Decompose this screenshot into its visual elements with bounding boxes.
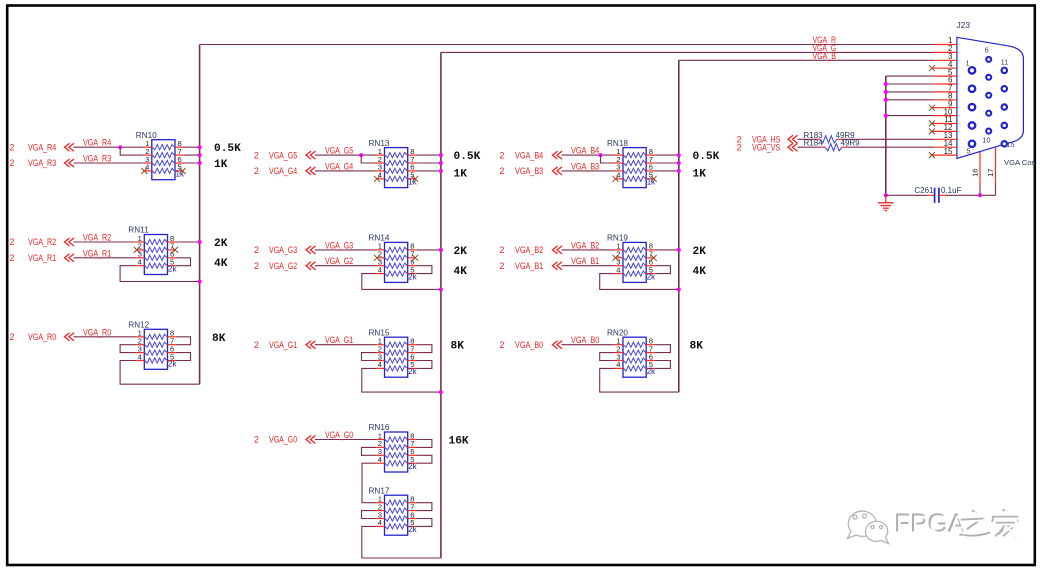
wire ground bus to J23 pin 5	[886, 75, 934, 77]
wire VGA_R4 to RN10 pin 1	[74, 146, 144, 148]
svg-text:2: 2	[500, 245, 505, 255]
wire ground bus to J23 pin 8	[886, 99, 934, 101]
junction G bus RN14 loop	[439, 287, 443, 291]
pin stub J23 pin 9	[932, 107, 957, 109]
off-page port VGA_R4	[10, 142, 75, 152]
wire VGA_VS to R184	[798, 146, 822, 148]
no-connect J23 pin 15	[929, 152, 935, 158]
wire VGA_B top horizontal to J23 pin3	[679, 59, 934, 61]
resistor network RN15	[369, 328, 418, 377]
off-page port VGA_R2	[10, 237, 75, 247]
no-connect RN13 pin 4	[374, 176, 380, 182]
junction B bus RN18 pin6	[677, 169, 681, 173]
net bus VGA_R vertical	[199, 45, 201, 385]
wire loop RN17 pin 4 to G bus end	[362, 526, 441, 558]
off-page port VGA_G5	[254, 150, 316, 160]
svg-text:1K: 1K	[454, 168, 468, 180]
off-page port VGA_G3	[254, 245, 316, 255]
off-page port VGA_G0	[254, 435, 316, 445]
svg-text:VGA_G4: VGA_G4	[269, 166, 297, 176]
net bus VGA_G vertical	[440, 52, 442, 558]
svg-text:15: 15	[944, 147, 953, 156]
no-connect J23 pin 9	[929, 105, 935, 111]
wire VGA_B0 to RN20 pin 1	[562, 344, 615, 346]
resistor R184 49R9	[804, 139, 861, 151]
pin stub J23 pin 10	[934, 115, 957, 117]
off-page port VGA_R1	[10, 253, 75, 263]
svg-text:VGA_G4: VGA_G4	[325, 161, 353, 171]
wire loop RN11 pin 4 to R bus	[120, 266, 200, 282]
wire VGA_G3 to RN14 pin 1	[315, 249, 376, 251]
ground net vertical bus	[885, 76, 887, 195]
wire RN18 pin 6 to B bus	[655, 170, 679, 172]
resistor network RN13	[369, 139, 418, 188]
junction R bus pin6	[198, 161, 202, 165]
pin stub J23 pin 2	[934, 51, 957, 53]
watermark FPGA logo	[848, 511, 889, 543]
resistor R183 49R9	[804, 131, 856, 143]
wire VGA_B2 to RN19 pin 1	[562, 249, 615, 251]
svg-text:0.5K: 0.5K	[214, 143, 241, 155]
svg-text:2: 2	[737, 142, 742, 152]
pin stub J23 pin 11	[932, 123, 957, 125]
wire bracket RN17 pin 6 to pin 5	[416, 519, 432, 527]
svg-text:0.1uF: 0.1uF	[941, 186, 962, 195]
svg-text:VGA_B3: VGA_B3	[571, 161, 599, 171]
no-connect RN10 pin 5	[180, 168, 186, 174]
svg-text:4K: 4K	[693, 266, 707, 278]
wire loop RN15 pin 4 to G bus	[362, 368, 441, 392]
junction R bus RN11 loop	[198, 280, 202, 284]
wire VGA_R0 to RN12 pin 1	[74, 336, 136, 338]
svg-text:2: 2	[500, 150, 505, 160]
svg-text:RN19: RN19	[607, 234, 628, 243]
wire bracket RN20 pin 8 to pin 7	[655, 345, 671, 353]
capacitor C261 0.1uF	[914, 186, 961, 203]
connector J23 outline	[957, 37, 1024, 158]
wire VGA_HS to R183	[798, 138, 817, 140]
svg-text:VGA_B0: VGA_B0	[515, 340, 543, 350]
wire J23 pin 17 drop	[995, 185, 997, 195]
junction B bus RN19 pin8	[677, 248, 681, 252]
svg-text:4: 4	[616, 360, 620, 369]
resistor network RN17	[369, 486, 418, 535]
svg-text:VGA_G2: VGA_G2	[325, 256, 353, 266]
svg-text:4: 4	[378, 171, 382, 180]
svg-text:VGA_G1: VGA_G1	[325, 335, 353, 345]
wire ground bus to J23 pin 7	[886, 91, 934, 93]
junction B bus RN19 loop	[677, 287, 681, 291]
wire R183 to J23 pin 13	[841, 138, 934, 140]
junction R bus RN11 pin8	[198, 240, 202, 244]
no-connect J23 pin 12	[929, 128, 935, 134]
junction ground bus pin8	[884, 98, 888, 102]
junction R bus pin7	[198, 153, 202, 157]
wire RN19 pin 8 to B bus	[655, 249, 679, 251]
junction ground bus pin6	[884, 82, 888, 86]
svg-text:RN20: RN20	[607, 328, 628, 337]
svg-text:VGA Con: VGA Con	[1004, 158, 1036, 167]
svg-text:VGA_G2: VGA_G2	[269, 261, 297, 271]
svg-text:4K: 4K	[454, 266, 468, 278]
wire bracket RN20 pin 6 to pin 5	[655, 361, 671, 369]
svg-text:4: 4	[138, 258, 142, 267]
junction ground at C261	[884, 193, 888, 197]
wire bracket RN14 pin 6 to pin 5	[416, 266, 432, 274]
wire RN10 pin 7 to R bus	[184, 154, 200, 156]
wire RN18 pin 7 to B bus	[655, 162, 679, 164]
pin stub J23 pin 15	[932, 154, 957, 156]
svg-text:VGA_R3: VGA_R3	[28, 158, 56, 168]
wire VGA_G2 to RN14 pin 3	[315, 265, 376, 267]
svg-text:2: 2	[254, 150, 259, 160]
svg-text:2k: 2k	[408, 525, 417, 534]
wire VGA_G1 to RN15 pin 1	[315, 344, 376, 346]
wire VGA_G5 to RN13 pin 1	[315, 154, 376, 156]
svg-text:VGA_G5: VGA_G5	[269, 150, 297, 160]
svg-text:RN16: RN16	[369, 423, 390, 432]
wire bracket RN19 pin 6 to pin 5	[655, 266, 671, 274]
svg-text:VGA_R0: VGA_R0	[83, 327, 111, 337]
svg-text:2: 2	[254, 245, 259, 255]
svg-text:RN14: RN14	[369, 234, 390, 243]
wire bracket RN12 pin 6 to pin 5	[176, 353, 191, 361]
wire VGA_G4 to RN13 pin 3	[315, 170, 376, 172]
svg-text:J23: J23	[957, 20, 971, 30]
wire R184 to J23 pin 14	[846, 146, 934, 148]
svg-text:VGA_G0: VGA_G0	[325, 430, 353, 440]
svg-text:2: 2	[10, 142, 15, 152]
svg-text:1: 1	[966, 59, 970, 68]
pin stub J23 pin 12	[932, 130, 957, 132]
svg-text:VGA_B1: VGA_B1	[571, 256, 599, 266]
resistor network RN18	[607, 139, 656, 188]
svg-text:VGA_G3: VGA_G3	[269, 245, 297, 255]
svg-text:VGA_B2: VGA_B2	[515, 245, 543, 255]
pin stub J23 pin 16	[979, 152, 981, 186]
wire branch to RN10 pin 2	[120, 147, 143, 155]
pin stub J23 pin 7	[934, 91, 957, 93]
junction G bus RN13 pin7	[439, 161, 443, 165]
svg-text:VGA_B2: VGA_B2	[571, 240, 599, 250]
watermark glyph zhi	[960, 511, 989, 536]
wire bracket RN16 pin 8 to pin 7	[416, 440, 432, 448]
off-page port VGA_G1	[254, 340, 316, 350]
wire ground to C261 plate	[886, 194, 927, 196]
svg-text:VGA_R4: VGA_R4	[83, 138, 111, 148]
pin stub J23 pin 17	[995, 147, 997, 186]
svg-text:4: 4	[616, 171, 620, 180]
svg-text:8K: 8K	[690, 341, 704, 353]
wire RN11 pin 8 to R bus	[176, 241, 200, 243]
svg-text:4: 4	[378, 518, 382, 527]
wire C261 to J23 pins 16/17	[947, 194, 996, 196]
svg-text:VGA_B1: VGA_B1	[515, 261, 543, 271]
svg-text:2K: 2K	[693, 246, 707, 258]
wire bracket RN20 pin 2 to pin 3	[600, 353, 615, 361]
svg-text:RN10: RN10	[136, 131, 157, 140]
svg-text:RN12: RN12	[128, 321, 149, 330]
svg-text:2: 2	[254, 261, 259, 271]
off-page port VGA_VS	[737, 142, 798, 152]
wire branch to RN13 pin 2	[361, 155, 376, 163]
svg-text:6: 6	[985, 46, 989, 55]
svg-text:4K: 4K	[214, 258, 228, 270]
svg-text:4: 4	[378, 360, 382, 369]
wire VGA_R2 to RN11 pin 1	[74, 241, 136, 243]
wire VGA_B1 to RN19 pin 3	[562, 265, 615, 267]
wire RN14 pin 8 to G bus	[416, 249, 441, 251]
svg-text:FPGA: FPGA	[896, 510, 967, 540]
svg-text:11: 11	[1001, 58, 1008, 67]
wire RN18 pin 8 to B bus	[655, 154, 679, 156]
svg-text:C261: C261	[914, 186, 934, 195]
wire bracket RN17 pin 2 to pin 3	[362, 511, 377, 519]
svg-text:VGA_G0: VGA_G0	[269, 435, 297, 445]
no-connect RN11 pin 2	[134, 247, 140, 253]
svg-text:VGA_B4: VGA_B4	[515, 150, 543, 160]
wire VGA_R1 to RN11 pin 3	[74, 257, 136, 259]
svg-text:2: 2	[254, 166, 259, 176]
svg-text:2k: 2k	[408, 367, 417, 376]
svg-text:1k: 1k	[408, 178, 417, 187]
junction ground bus pin7	[884, 90, 888, 94]
svg-text:2: 2	[10, 158, 15, 168]
svg-text:RN11: RN11	[128, 226, 149, 235]
pin stub J23 pin 6	[934, 83, 957, 85]
svg-text:2: 2	[254, 435, 259, 445]
watermark glyph jia	[992, 510, 1018, 538]
off-page port VGA_HS	[737, 135, 798, 145]
pin stub J23 pin 14	[934, 146, 957, 148]
junction VGA_R4 branch	[118, 145, 122, 149]
off-page port VGA_R3	[10, 158, 75, 168]
wire ground bus to J23 pin 6	[886, 83, 934, 85]
svg-text:2: 2	[500, 340, 505, 350]
svg-text:VGA_B: VGA_B	[813, 51, 837, 61]
svg-text:VGA_G5: VGA_G5	[325, 146, 353, 156]
wire VGA_G0 to RN16 pin 1	[315, 439, 376, 441]
wire bracket RN17 pin 8 to pin 7	[416, 503, 432, 511]
resistor network RN19	[607, 234, 656, 283]
svg-text:2: 2	[10, 253, 15, 263]
junction G bus RN15 loop	[439, 390, 443, 394]
svg-text:2k: 2k	[168, 265, 177, 274]
svg-text:VGA_R2: VGA_R2	[28, 237, 56, 247]
junction G bus RN14 pin8	[439, 248, 443, 252]
junction B bus RN18 pin7	[677, 161, 681, 165]
svg-text:4: 4	[138, 352, 142, 361]
pin stub J23 pin 8	[934, 99, 957, 101]
svg-text:VGA_VS: VGA_VS	[752, 142, 780, 152]
svg-text:2k: 2k	[168, 359, 177, 368]
svg-text:RN13: RN13	[369, 139, 390, 148]
wire bracket RN15 pin 6 to pin 5	[416, 361, 432, 369]
resistor network RN10	[136, 131, 185, 180]
no-connect RN14 pin 2	[374, 255, 380, 261]
svg-text:2: 2	[10, 332, 15, 342]
junction pin16 wire	[978, 193, 982, 197]
svg-text:VGA_R1: VGA_R1	[83, 248, 111, 258]
svg-text:VGA_B3: VGA_B3	[515, 166, 543, 176]
off-page port VGA_B0	[500, 340, 563, 350]
svg-text:RN15: RN15	[369, 328, 390, 337]
wire VGA_B3 to RN18 pin 3	[562, 170, 615, 172]
pin stub J23 pin 1	[934, 44, 957, 46]
no-connect RN10 pin 4	[141, 168, 147, 174]
off-page port VGA_B2	[500, 245, 563, 255]
wire VGA_R3 to RN10 pin 3	[74, 162, 144, 164]
wire ground bus to J23 pin 10	[886, 115, 934, 117]
svg-text:1K: 1K	[214, 159, 228, 171]
pin stub J23 pin 5	[934, 75, 957, 77]
wire RN10 pin 8 to R bus	[184, 146, 200, 148]
svg-text:1k: 1k	[647, 178, 656, 187]
no-connect RN18 pin 4	[613, 176, 619, 182]
svg-text:16: 16	[971, 169, 980, 177]
wire bracket RN15 pin 2 to pin 3	[362, 353, 377, 361]
svg-text:VGA_G1: VGA_G1	[269, 340, 297, 350]
off-page port VGA_G2	[254, 261, 316, 271]
svg-text:2: 2	[500, 166, 505, 176]
svg-text:8K: 8K	[212, 333, 226, 345]
svg-text:4: 4	[616, 265, 620, 274]
wire RN13 pin 6 to G bus	[416, 170, 441, 172]
svg-text:2: 2	[500, 261, 505, 271]
off-page port VGA_B1	[500, 261, 563, 271]
wire VGA_R top horizontal to J23 pin1	[200, 44, 934, 46]
svg-text:15: 15	[1007, 140, 1015, 149]
svg-text:2k: 2k	[408, 272, 417, 281]
svg-text:RN17: RN17	[369, 486, 390, 495]
svg-text:R184: R184	[804, 139, 824, 148]
no-connect RN14 pin 7	[412, 255, 418, 261]
resistor network RN12	[128, 321, 177, 370]
off-page port VGA_B3	[500, 166, 563, 176]
ground symbol	[878, 195, 894, 210]
resistor network RN16	[369, 423, 418, 472]
wire J23 pin 16 drop	[979, 185, 981, 195]
wire branch to RN18 pin 2	[601, 155, 615, 163]
pin stub J23 pin 4	[932, 67, 957, 69]
svg-text:VGA_R3: VGA_R3	[83, 154, 111, 164]
svg-text:5: 5	[967, 147, 971, 156]
off-page port VGA_R0	[10, 332, 75, 342]
svg-text:10: 10	[983, 136, 991, 145]
junction R bus pin8	[198, 145, 202, 149]
wire RN16 pin 4 to RN17 pin 1	[362, 463, 376, 503]
svg-text:2k: 2k	[647, 367, 656, 376]
no-connect RN18 pin 5	[651, 176, 657, 182]
svg-text:VGA_R4: VGA_R4	[28, 142, 56, 152]
svg-text:RN18: RN18	[607, 139, 628, 148]
wire RN13 pin 7 to G bus	[416, 162, 441, 164]
wire VGA_B4 to RN18 pin 1	[562, 154, 615, 156]
wire bracket RN12 pin 8 to pin 7	[176, 337, 191, 345]
svg-text:VGA_G3: VGA_G3	[325, 240, 353, 250]
svg-text:1k: 1k	[176, 170, 185, 179]
svg-text:2k: 2k	[408, 462, 417, 471]
no-connect J23 pin 4	[929, 65, 935, 71]
pin stub J23 pin 3	[934, 59, 957, 61]
svg-text:2K: 2K	[214, 238, 228, 250]
off-page port VGA_B4	[500, 150, 563, 160]
wire loop RN14 pin 4 to G bus	[362, 274, 441, 290]
wire bracket RN16 pin 6 to pin 5	[416, 455, 432, 463]
junction VGA_G5 branch	[359, 153, 363, 157]
no-connect RN19 pin 2	[613, 255, 619, 261]
svg-text:8K: 8K	[451, 341, 465, 353]
wire loop RN12 pin 4 to R bus end	[120, 361, 200, 385]
junction VGA_B4 branch	[599, 153, 603, 157]
wire bracket RN16 pin 2 to pin 3	[362, 447, 377, 455]
resistor network RN11	[128, 226, 177, 275]
wire RN13 pin 8 to G bus	[416, 154, 441, 156]
svg-text:VGA_B4: VGA_B4	[571, 146, 599, 156]
svg-text:4: 4	[378, 455, 382, 464]
svg-text:1K: 1K	[693, 168, 707, 180]
pin stub J23 pin 13	[934, 138, 957, 140]
junction G bus RN13 pin8	[439, 153, 443, 157]
no-connect J23 pin 11	[929, 121, 935, 127]
svg-text:2: 2	[254, 340, 259, 350]
resistor network RN20	[607, 328, 656, 377]
svg-text:17: 17	[986, 169, 995, 177]
svg-text:4: 4	[145, 163, 149, 172]
wire VGA_G top horizontal to J23 pin2	[441, 51, 934, 53]
svg-text:VGA_B0: VGA_B0	[571, 335, 599, 345]
junction B bus RN18 pin8	[677, 153, 681, 157]
junction G bus RN13 pin6	[439, 169, 443, 173]
svg-text:49R9: 49R9	[841, 139, 861, 148]
svg-text:VGA_R2: VGA_R2	[83, 233, 111, 243]
svg-text:2: 2	[10, 237, 15, 247]
wire loop RN19 pin 4 to B bus	[600, 274, 679, 290]
svg-text:VGA_R1: VGA_R1	[28, 253, 56, 263]
wire bracket RN12 pin 2 to pin 3	[120, 345, 136, 353]
wire bracket RN11 pin 6 to pin 5	[176, 258, 191, 266]
wire RN10 pin 6 to R bus	[184, 162, 200, 164]
junction ground bus pin10	[884, 114, 888, 118]
svg-text:4: 4	[378, 265, 382, 274]
wire loop RN20 pin 4 to B bus end	[600, 368, 679, 392]
svg-text:0.5K: 0.5K	[454, 151, 481, 163]
no-connect RN13 pin 5	[412, 176, 418, 182]
svg-text:2k: 2k	[647, 272, 656, 281]
off-page port VGA_G4	[254, 166, 316, 176]
no-connect RN19 pin 7	[651, 255, 657, 261]
no-connect RN11 pin 7	[172, 247, 178, 253]
resistor network RN14	[369, 234, 418, 283]
wire bracket RN15 pin 8 to pin 7	[416, 345, 432, 353]
net bus VGA_B vertical	[678, 60, 680, 392]
svg-text:VGA_R0: VGA_R0	[28, 332, 56, 342]
svg-text:2K: 2K	[454, 246, 468, 258]
svg-text:16K: 16K	[449, 436, 469, 448]
svg-text:0.5K: 0.5K	[693, 151, 720, 163]
connector socket holes	[969, 57, 1007, 147]
